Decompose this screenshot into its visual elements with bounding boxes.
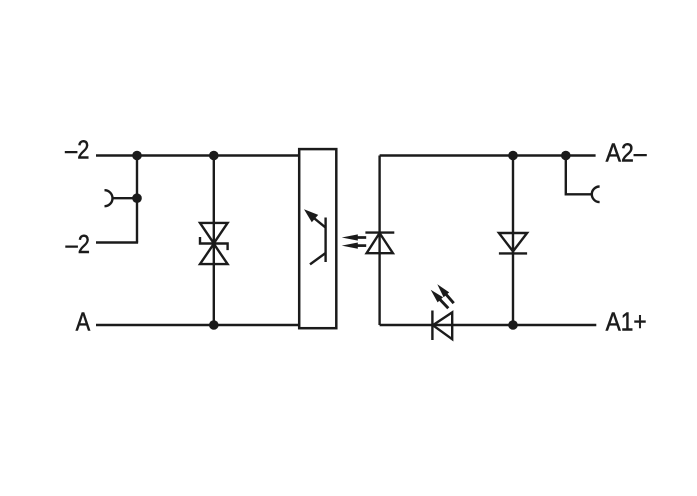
light arrow lower (LED to transistor) bbox=[357, 244, 366, 247]
indicator LED emission arrow left bbox=[438, 298, 448, 309]
wire lower -2 horizontal bbox=[96, 241, 138, 243]
wire vertical x137 from top wire to lower -2 branch bbox=[136, 156, 138, 243]
node junction dot at x214 bottom wire bbox=[209, 320, 219, 330]
svg-text:A2–: A2– bbox=[606, 138, 647, 168]
phototransistor emitter arrowhead bbox=[304, 209, 318, 222]
node junction dot at x137 top wire bbox=[132, 151, 142, 161]
wire bottom-right horizontal bbox=[380, 324, 597, 326]
node junction dot socket branch top bbox=[561, 151, 571, 161]
phototransistor lower lead bbox=[310, 253, 326, 264]
wire bottom-left horizontal bbox=[96, 324, 299, 326]
freewheeling diode D1 cathode bar bbox=[499, 252, 527, 254]
optocoupler U1 body box bbox=[299, 149, 336, 328]
node junction dot diode branch top bbox=[508, 151, 518, 161]
freewheeling diode D1 triangle bbox=[499, 233, 527, 251]
phototransistor upper lead bbox=[310, 214, 326, 227]
indicator LED triangle bbox=[433, 312, 452, 339]
indicator LED cathode bar bbox=[431, 311, 433, 341]
wire freewheeling diode vertical bbox=[512, 156, 514, 326]
wire vertical x214 (TVS branch) bbox=[213, 156, 215, 326]
indicator LED emission arrow right bbox=[444, 292, 454, 303]
svg-text:A: A bbox=[76, 307, 91, 337]
suppressor diode (bidirectional TVS) upper triangle bbox=[200, 223, 228, 243]
node junction dot socket branch bbox=[132, 193, 142, 203]
svg-text:A1+: A1+ bbox=[606, 306, 647, 336]
svg-text:–2: –2 bbox=[65, 135, 89, 165]
jumper contact socket (left, open left) bbox=[105, 190, 113, 206]
svg-text:–2: –2 bbox=[66, 229, 90, 259]
wire top-right horizontal bbox=[380, 154, 596, 156]
suppressor diode lower triangle bbox=[200, 244, 228, 264]
phototransistor base bar bbox=[324, 218, 326, 263]
wire socket to node bbox=[113, 197, 138, 199]
wire opto LED vertical bbox=[378, 156, 380, 326]
opto LED triangle bbox=[367, 233, 393, 253]
node junction dot diode branch bottom bbox=[508, 320, 518, 330]
node junction dot at x214 top wire bbox=[209, 151, 219, 161]
suppressor diode Z-bar bbox=[200, 237, 228, 250]
light arrow upper (LED to transistor) bbox=[357, 236, 366, 239]
opto LED cathode bar bbox=[365, 231, 394, 233]
jumper contact socket (right, open right) bbox=[592, 187, 600, 203]
wire top-left horizontal bbox=[96, 154, 299, 156]
wire right socket branch bbox=[566, 156, 592, 195]
